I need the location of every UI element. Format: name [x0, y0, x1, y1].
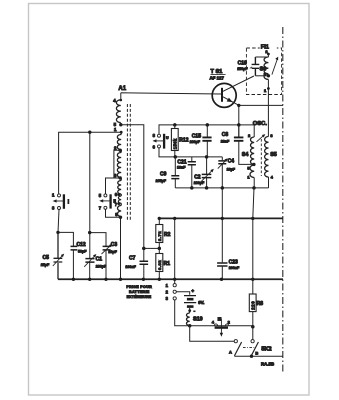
svg-text:R2: R2 [164, 232, 171, 238]
node R8 line on bus [251, 278, 254, 281]
transformer A1 secondary winding lower sections [117, 178, 121, 217]
switch SK2 contact A circle [234, 340, 237, 343]
svg-text:C8: C8 [222, 132, 229, 138]
svg-text:6.8k: 6.8k [157, 260, 162, 270]
trimmer II pin circle 5 [104, 194, 107, 197]
svg-text:A1: A1 [118, 86, 126, 92]
node C8 top on mixer bus [237, 123, 241, 127]
trimmer I pin circle 1 [58, 194, 61, 197]
schematic right boundary dash-dot line [282, 27, 284, 373]
svg-text:A: A [229, 350, 232, 355]
svg-text:6: 6 [153, 144, 156, 149]
oscillator return / R8 vertical [253, 188, 254, 294]
node pin 3 tap of S6 [267, 74, 270, 77]
svg-text:OSC.: OSC. [253, 121, 268, 127]
svg-text:8: 8 [153, 133, 156, 138]
node pin 5 of A1 [119, 123, 122, 126]
svg-text:AF 127: AF 127 [210, 76, 225, 81]
wire: junction to C12 [58, 232, 73, 246]
svg-text:S4: S4 [242, 152, 249, 158]
wire: pin5 to C7 drop corner [121, 125, 144, 249]
wire: pin3 down and right to S19 bottom [175, 300, 190, 326]
svg-text:4: 4 [271, 175, 274, 180]
svg-text:C23: C23 [229, 260, 238, 266]
mixer trimmer pin circle 8 [158, 134, 161, 137]
node pin 1 of FI1 [267, 87, 270, 90]
svg-text:C9: C9 [160, 171, 167, 177]
wire: C7 node to R junction [144, 247, 160, 249]
svg-text:220: 220 [250, 301, 255, 310]
wire: C4 node down to supply bus [221, 188, 223, 219]
svg-text:3: 3 [166, 296, 169, 301]
switch SK2 blade A [234, 342, 241, 356]
trimmer capacitor II plate [109, 194, 111, 208]
FI1 top rail [255, 56, 268, 58]
wire: S6 bottom to pin 1 [267, 79, 269, 136]
node C4 bottom [221, 186, 225, 190]
wire: junction to C3 [90, 233, 106, 246]
node trimmer III wire to R8 line [251, 325, 255, 329]
wire: pin 8 down to ground bus [120, 217, 122, 279]
transistor collector lead to FI1 [223, 76, 254, 91]
transformer A1 ferrite core dashed lines [127, 104, 130, 222]
svg-text:10pF: 10pF [227, 167, 236, 171]
node C2 bottom [205, 186, 209, 190]
svg-text:C4: C4 [228, 159, 235, 165]
FI1 adjustable core arrow [272, 59, 278, 75]
svg-text:C3: C3 [111, 242, 118, 248]
battery minus lead [189, 308, 191, 313]
variable capacitor C2 [206, 157, 208, 188]
oscillator net y188 [175, 187, 268, 189]
trimmer capacitor C4 [221, 157, 223, 188]
svg-text:5: 5 [99, 193, 102, 198]
node pin 4 of A1 [120, 99, 123, 102]
node battery riser on bus [173, 278, 176, 281]
svg-text:280pF: 280pF [96, 264, 107, 268]
node C23 on bus [220, 278, 223, 281]
trimmer capacitor C5 [54, 232, 63, 279]
svg-text:150pF: 150pF [237, 67, 248, 71]
svg-text:RA.5B: RA.5B [261, 362, 274, 367]
wire: trimmer 6 to R12 bottom node [159, 148, 175, 157]
trimmer III arrow [220, 319, 222, 335]
resistor R1 [158, 248, 160, 279]
node C15 top on mixer bus [206, 123, 210, 127]
supply bus y218 [159, 217, 283, 219]
socket pin 1 circle [173, 284, 176, 287]
node C21 bottom [190, 186, 194, 190]
wire: R8 bottom to contact B [252, 312, 254, 340]
svg-text:5K2: 5K2 [261, 346, 271, 352]
svg-text:7: 7 [99, 206, 102, 211]
switch SK2 contact B circle [251, 340, 254, 343]
svg-text:2.7k: 2.7k [157, 231, 162, 241]
svg-text:20pF: 20pF [108, 250, 117, 254]
oscillator coil S4 [253, 125, 255, 137]
node C1 on bus [88, 278, 91, 281]
node pin 8 of A1 [119, 216, 122, 219]
oscillator core dashed [260, 139, 262, 176]
node osc return on bus [251, 217, 254, 220]
trimmer capacitor I plate [63, 194, 65, 209]
transistor Q1 TS1 circle [212, 83, 236, 107]
node tap 6 of A1 [117, 193, 120, 196]
svg-text:3: 3 [114, 173, 117, 178]
svg-text:-: - [194, 308, 196, 313]
node R12 bottom junction [174, 155, 178, 159]
node junction C5 top [56, 231, 59, 234]
svg-text:PRISE POUR: PRISE POUR [126, 285, 152, 289]
svg-text:II: II [113, 198, 116, 203]
wire: mid net y157 [175, 156, 222, 158]
oscillator coil S5 [265, 137, 269, 178]
mixer trimmer capacitor plate [163, 134, 165, 149]
svg-text:R12: R12 [179, 138, 188, 144]
wire: emitter junction down to C8 [238, 105, 240, 137]
node C2 top junction [205, 155, 209, 159]
wire: A1 pin4 riser [120, 93, 122, 100]
svg-text:C1: C1 [96, 257, 103, 263]
trimmer III pin hook 2 [225, 324, 228, 326]
svg-text:C5: C5 [43, 255, 50, 261]
trimmer capacitor C3 [103, 246, 111, 250]
svg-text:C7: C7 [129, 255, 136, 261]
svg-text:56pF: 56pF [78, 250, 87, 254]
trimmer II arrow [101, 200, 111, 202]
svg-text:280pF: 280pF [194, 181, 205, 185]
node pin 1 of A1 secondary [120, 131, 123, 134]
svg-text:9V.: 9V. [198, 300, 204, 305]
node tap 3 of A1 [119, 176, 122, 179]
socket pin 3 circle [173, 297, 176, 300]
capacitor C9 [174, 157, 176, 188]
ground bus bottom left [58, 278, 283, 280]
IF transformer FI1 dashed box [246, 48, 281, 95]
svg-text:EXTÉRIEURE: EXTÉRIEURE [127, 294, 152, 299]
svg-text:4: 4 [113, 98, 116, 103]
oscillator adjustable core arrow [257, 135, 265, 142]
svg-text:2: 2 [228, 319, 231, 324]
node emitter junction [237, 104, 240, 107]
svg-text:1: 1 [52, 193, 55, 198]
node C23 top on bus [221, 217, 224, 220]
svg-text:100nF: 100nF [125, 265, 136, 269]
svg-text:25pF: 25pF [41, 263, 50, 267]
node C3 on bus [104, 278, 107, 281]
svg-text:4: 4 [212, 319, 215, 324]
trimmer I arrow [55, 200, 64, 202]
node junction on pin1 wire [88, 131, 91, 134]
capacitor C21 [191, 157, 193, 188]
svg-text:100nF: 100nF [229, 266, 240, 270]
node blade B on bottom wire [250, 355, 253, 358]
svg-text:10nF: 10nF [177, 166, 186, 170]
svg-text:III: III [218, 316, 222, 321]
node junction C1 top [88, 231, 91, 234]
node C7 top [142, 247, 146, 251]
svg-text:156k: 156k [172, 138, 177, 149]
wire: tap3 to trimmer II top [106, 178, 121, 194]
wire: trimmer II bottom to pin 8 [106, 209, 121, 217]
svg-text:C12: C12 [77, 242, 86, 248]
svg-text:2: 2 [248, 133, 251, 138]
inductor S6 [264, 57, 268, 79]
node R1 on bus [158, 278, 161, 281]
resistor R8 [249, 294, 256, 312]
transistor emitter lead with arrow [223, 97, 239, 106]
mixer trimmer pin circle 6 [158, 145, 161, 148]
wire: emitter junction to frame [239, 104, 283, 106]
wire: S19 bottom to R8 line through trimmer III [190, 325, 253, 327]
capacitor C7 [143, 248, 145, 279]
svg-text:3: 3 [270, 133, 273, 138]
node tap 5 of S4 [252, 163, 255, 166]
node R2/R1 junction [158, 247, 162, 251]
node C7 on bus [142, 278, 145, 281]
transistor base bar [221, 88, 223, 102]
svg-text:2: 2 [166, 290, 169, 295]
transformer A1 secondary winding middle section [117, 153, 121, 178]
svg-text:U: U [166, 136, 169, 140]
node S19 bottom junction [188, 324, 192, 328]
node R2 top [158, 217, 161, 220]
resistor R12 [174, 125, 176, 157]
node R12 top on mixer bus [173, 123, 177, 127]
inductor S19 [186, 313, 189, 326]
svg-text:22nF: 22nF [221, 139, 230, 143]
variable capacitor C1 [85, 259, 94, 263]
battery B1 9V plates [184, 296, 196, 303]
node battery riser top [173, 217, 176, 220]
svg-text:280pF: 280pF [190, 140, 201, 144]
svg-text:I: I [68, 199, 70, 205]
node C12 on bus [72, 278, 75, 281]
trimmer II pin circle 7 [104, 206, 107, 209]
svg-text:1: 1 [114, 127, 117, 132]
wire: S5 bottom to node [268, 177, 270, 188]
capacitor C8 [239, 125, 254, 164]
wire: secondary pin1 horizontal to trimmer I [59, 132, 122, 194]
svg-text:1: 1 [264, 88, 267, 93]
wire: bracket from tap2 down to tap3 wire [114, 150, 120, 178]
wire: S19 bottom down to switch contact A [190, 326, 235, 341]
svg-text:B: B [255, 350, 258, 355]
wire: trimmer I bottom to junction [58, 210, 59, 233]
svg-text:265pF: 265pF [156, 179, 167, 183]
switch SK2 blade B [251, 342, 258, 356]
svg-text:S19: S19 [193, 317, 203, 323]
node tap 7 of A1 [117, 202, 120, 205]
node pin 2 of FI1 [267, 53, 270, 56]
svg-text:R8: R8 [257, 301, 264, 307]
svg-text:BATTERIE: BATTERIE [129, 290, 150, 294]
wire: trimmer 8 riser to mixer bus [159, 125, 254, 134]
capacitor C15 [206, 125, 208, 157]
node S4 bottom [252, 186, 256, 190]
node tap 2 of A1 [119, 149, 122, 152]
switch gang dash-dot link [243, 347, 255, 349]
resistor R2 [158, 218, 160, 248]
svg-text:S5: S5 [270, 152, 277, 158]
trimmer capacitor III plate [215, 326, 228, 328]
svg-text:C10: C10 [238, 60, 247, 66]
FI1 bottom rail [255, 75, 268, 77]
trimmer III pin hook 4 [214, 324, 217, 326]
svg-text:C2: C2 [194, 175, 201, 181]
transformer A1 secondary winding top section [117, 132, 121, 152]
wire: long vertical through C1 junction [89, 132, 91, 258]
svg-text:3: 3 [52, 205, 55, 210]
wire: A1 top to transistor base [121, 93, 221, 94]
battery socket riser [174, 218, 176, 283]
svg-text:C15: C15 [192, 133, 201, 139]
svg-text:+: + [191, 289, 194, 294]
capacitor C10 inside FI1 [252, 57, 260, 76]
wire: pin2 to battery plus [176, 292, 189, 295]
switch bottom wire to frame [234, 355, 283, 357]
svg-text:R1: R1 [164, 261, 171, 267]
socket pin 2 circle [173, 290, 176, 293]
svg-text:C21: C21 [177, 159, 186, 165]
mixer trimmer arrow [154, 140, 164, 142]
capacitor C23 [221, 218, 223, 279]
node A1 pin8 on bus [119, 278, 122, 281]
transformer A1 primary winding (pins 4-5) [116, 100, 120, 123]
capacitor C12 [71, 246, 78, 250]
svg-text:1: 1 [166, 283, 169, 288]
trimmer I pin circle 3 [58, 207, 61, 210]
